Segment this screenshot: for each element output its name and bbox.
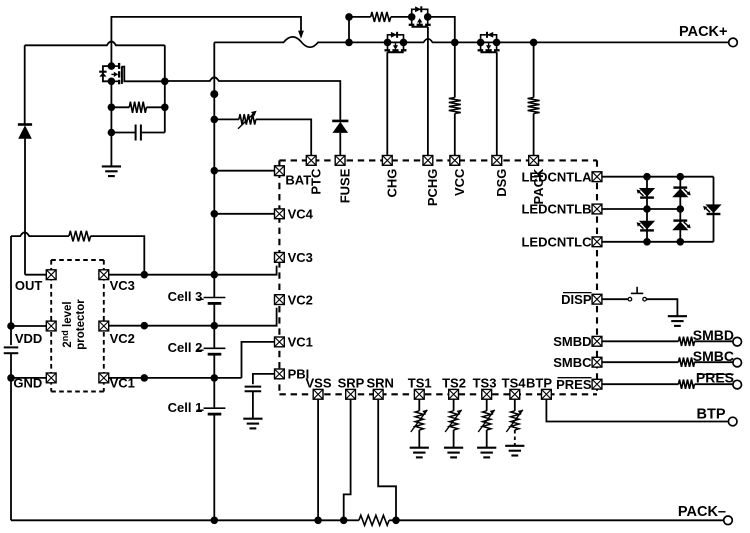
wire BAT+ feed: horizontal wire y=45.3 from diode line to x=164.8 with hop over Q1 line: [25, 41, 165, 45]
wire VC3 row from protector to U1 VC3 pin: [109, 266, 277, 275]
transistor Q2 PCHG MOSFET: [412, 9, 428, 17]
svg-text:TS4: TS4: [502, 376, 527, 391]
svg-text:PRES: PRES: [556, 377, 592, 392]
overline for PRES pin label: [558, 377, 592, 379]
pin PACK of U1: [529, 156, 539, 166]
svg-text:Cell 1: Cell 1: [168, 400, 203, 415]
svg-text:SRP: SRP: [338, 376, 365, 391]
terminal SMBD: [733, 337, 742, 346]
wire upper precharge branch from rail up through R1: [349, 17, 371, 43]
pin VC1 of U1: [275, 337, 285, 347]
pin OUT of U2: [46, 270, 56, 280]
junction dot on stack x=214.3 y=94.1: [213, 81, 215, 171]
cell BT2 Cell 2: [213, 326, 215, 349]
wire VC1 row from protector to stack and up to U1 VC1 pin: [109, 377, 242, 379]
terminal BTP: [728, 417, 737, 426]
svg-text:OUT: OUT: [15, 278, 43, 293]
resistor series SMBC: [679, 358, 695, 367]
svg-text:VSS: VSS: [305, 376, 331, 391]
arrowhead joining top wire to PACK+ rail: [298, 31, 304, 39]
wire Q2 gate down to PCHG pin: [427, 27, 429, 155]
svg-text:SMBD: SMBD: [553, 334, 591, 349]
wire SMBC pin to resistor: [602, 361, 678, 363]
ground for Q1 subcircuit: [102, 166, 121, 176]
svg-text:TS2: TS2: [442, 376, 466, 391]
wire stack bottom to PACK- rail: [213, 414, 215, 520]
svg-text:LEDCNTLB: LEDCNTLB: [521, 202, 591, 217]
ground for TS1: [410, 448, 429, 458]
pin BTP of U1: [542, 389, 552, 399]
LED D6: [673, 219, 687, 221]
wire PRES pin to resistor: [602, 383, 678, 385]
thermistor RT3 on TS3: [486, 400, 488, 411]
LED D3: [639, 188, 655, 197]
wire VC4 pin to stack: [214, 213, 274, 215]
capacitor C3 PBI: [245, 387, 262, 392]
wire Q1 source down to ground: [110, 81, 112, 166]
wire PBI pin to capacitor C3: [253, 374, 274, 384]
pin LEDCNTLA of U1: [592, 172, 602, 182]
svg-text:FUSE: FUSE: [337, 168, 352, 203]
svg-text:LEDCNTLA: LEDCNTLA: [521, 169, 592, 184]
pin PRES of U1: [592, 379, 602, 389]
pin FUSE of U1: [335, 156, 345, 166]
wire FUSE-blow net y=81 from Q1 gate junction to diode D2, hop over stack: [165, 77, 340, 120]
wire SRN to sense resistor: [378, 400, 396, 521]
pin TS3 of U1: [482, 389, 492, 399]
pin PBI of U1: [275, 369, 285, 379]
svg-text:BAT: BAT: [285, 173, 311, 188]
svg-text:VC3: VC3: [288, 250, 313, 265]
resistor R7 current sense: [344, 519, 359, 521]
svg-text:VC1: VC1: [288, 335, 313, 350]
ground for C3: [243, 419, 262, 429]
terminal SMBC: [733, 358, 742, 367]
LED D7 right: [705, 204, 721, 213]
pin DSG of U1: [492, 156, 502, 166]
svg-text:PACK+: PACK+: [679, 24, 727, 40]
pin TS1 of U1: [414, 389, 424, 399]
resistor R3 VCC filter: [454, 42, 456, 97]
wire DISP pin to switch: [602, 298, 628, 300]
wire SRP to sense resistor: [344, 400, 351, 521]
LED D5: [639, 221, 655, 230]
wire LED column 1: [646, 177, 648, 242]
svg-text:DSG: DSG: [494, 169, 509, 197]
svg-text:VDD: VDD: [15, 331, 42, 346]
pin VC3 of U1: [275, 253, 285, 263]
pin SMBC of U1: [592, 357, 602, 367]
diode D2 to FUSE pin: [332, 120, 348, 123]
pin VC1 of U2: [99, 373, 109, 383]
diode D1 left branch: [24, 45, 26, 124]
cell BT1 Cell 1: [213, 378, 215, 408]
svg-text:VC2: VC2: [288, 292, 313, 307]
gas gauge IC U1 dashed outline: [279, 160, 597, 394]
pin VC4 of U1: [275, 209, 285, 219]
svg-text:BTP: BTP: [697, 406, 726, 422]
wire battery stack top: from rail corner down cell stack: [213, 42, 215, 80]
pin GND of U2: [46, 373, 56, 383]
transistor Q4 DSG MOSFET: [481, 35, 497, 43]
resistor R4 PACK sense: [530, 39, 538, 47]
wire BAT pin to stack: [214, 170, 274, 172]
svg-text:VC1: VC1: [110, 375, 135, 390]
ground for SW1: [668, 316, 687, 326]
wire LEDCNTLA row: [602, 176, 713, 178]
svg-text:SRN: SRN: [366, 376, 393, 391]
wire Q3 gate down to CHG pin: [386, 52, 388, 155]
svg-text:VC4: VC4: [288, 207, 314, 222]
wire LED right column: [713, 177, 715, 242]
terminal PRES: [733, 380, 742, 389]
pin VDD of U2: [46, 321, 56, 331]
svg-text:TS1: TS1: [408, 376, 432, 391]
svg-text:TS3: TS3: [473, 376, 497, 391]
svg-text:PRES: PRES: [696, 370, 734, 386]
ground for TS4: [505, 446, 524, 456]
pin PTC of U1: [306, 156, 316, 166]
svg-text:SMBC: SMBC: [553, 355, 592, 370]
svg-text:SMBC: SMBC: [693, 348, 734, 364]
wire Q2 right to rail: [428, 17, 455, 41]
svg-text:PCHG: PCHG: [425, 169, 440, 207]
pushbutton SW1 DISP: [628, 297, 632, 301]
capacitor C1 gate-source: [111, 132, 135, 134]
pin LEDCNTLB of U1: [592, 204, 602, 214]
svg-text:VCC: VCC: [452, 168, 467, 196]
ground for TS2: [444, 448, 463, 458]
wire LEDCNTLB row: [602, 208, 680, 210]
wire BTP pin to BTP terminal: [546, 400, 728, 422]
terminal PACK+: [729, 38, 738, 47]
wire VC2 row from protector to U1 VC2 pin: [109, 308, 277, 326]
pin VC3 of U2: [99, 270, 109, 280]
pin VC2 of U2: [99, 321, 109, 331]
resistor series SMBD: [679, 337, 695, 346]
pin VCC of U1: [450, 156, 460, 166]
wire switch to ground: [646, 299, 677, 316]
svg-text:BTP: BTP: [526, 376, 552, 391]
overline for DISP pin label: [563, 292, 592, 294]
svg-text:LEDCNTLC: LEDCNTLC: [521, 235, 592, 250]
LED D4: [673, 186, 687, 188]
wire LED column 2: [679, 177, 681, 242]
pin PCHG of U1: [423, 156, 433, 166]
pin VC2 of U1: [275, 295, 285, 305]
thermistor RT2 on TS2: [453, 400, 455, 411]
wire VDD pin tap: [11, 325, 46, 327]
transistor Q3 CHG MOSFET: [388, 35, 404, 43]
wire VSS pin to PACK- rail: [317, 400, 319, 521]
pin BAT of U1: [275, 166, 285, 176]
pin SRN of U1: [373, 389, 383, 399]
svg-text:Cell 2: Cell 2: [168, 340, 203, 355]
svg-text:SMBD: SMBD: [693, 327, 734, 343]
ground for TS3: [477, 448, 496, 458]
wire OUT pin from diode branch: [25, 274, 46, 276]
cell BT3 Cell 3: [213, 275, 215, 298]
resistor R6 protector supply: [11, 232, 69, 236]
pin LEDCNTLC of U1: [592, 237, 602, 247]
wire LEDCNTLC row: [602, 241, 713, 243]
wire vertical x=164.8 from y=45.3 down to capacitor C1 level: [164, 45, 166, 132]
overline for PRES terminal label: [699, 373, 734, 375]
pin CHG of U1: [382, 156, 392, 166]
resistor R1 precharge: [371, 12, 391, 22]
2nd level protector U2 dashed outline: [51, 260, 104, 392]
wire PACK+ rail with S-hop at x=301 and hop over PCHG gate at x=428: [214, 37, 728, 47]
wire Q1 gate to junction x=164.8: [122, 67, 165, 82]
wire stack x=214.3 BAT to VC3 row: [213, 171, 215, 275]
pin SMBD of U1: [592, 336, 602, 346]
transistor Q1 top-left vertical MOSFET: [103, 66, 112, 81]
wire Q1 drain branch: top wire from Q1 up and right to arrow at main rail: [111, 17, 301, 63]
svg-text:VC3: VC3: [110, 278, 135, 293]
wire VDD rail down left side: [10, 236, 12, 345]
pin VSS of U1: [313, 389, 323, 399]
resistor R2 gate-source: [111, 106, 129, 108]
svg-text:DISP: DISP: [561, 292, 592, 307]
wire PACK- rail: [11, 519, 344, 521]
thermistor RT1 on TS1: [418, 400, 420, 411]
thermistor RT4 on TS4: [514, 400, 516, 411]
pin SRP of U1: [346, 389, 356, 399]
wire GND pin tap and down to PACK- rail: [10, 353, 12, 520]
svg-text:PACK–: PACK–: [678, 504, 726, 520]
wire SMBD pin to resistor: [602, 340, 678, 342]
resistor R5 PTC sense with arrow: [211, 116, 219, 124]
svg-text:CHG: CHG: [385, 169, 400, 198]
capacitor C2 VDD: [4, 347, 19, 353]
resistor series PRES: [679, 380, 695, 389]
pin DISP of U1: [592, 294, 602, 304]
pin TS4 of U1: [510, 389, 520, 399]
svg-text:protector: protector: [75, 299, 87, 350]
svg-text:Cell 3: Cell 3: [168, 289, 203, 304]
svg-text:VC2: VC2: [110, 331, 135, 346]
pin TS2 of U1: [449, 389, 459, 399]
terminal PACK-: [724, 516, 733, 525]
wire Q4 gate down to DSG pin: [496, 52, 498, 155]
